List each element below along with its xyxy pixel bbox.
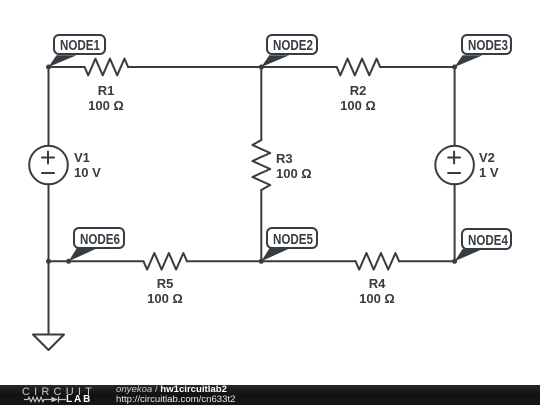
node flag pointer NODE5 (261, 249, 289, 262)
node flag pointer NODE4 (455, 249, 483, 261)
label V2 value (479, 150, 499, 181)
wire top segment R2 to NODE3 (380, 66, 454, 68)
wire right upper segment (454, 67, 456, 146)
wire bottom segment R5 to R4 (187, 260, 356, 262)
node flag pointer NODE2 (261, 55, 289, 67)
node NODE5 (266, 227, 318, 249)
junction dot node 3 (452, 65, 457, 70)
wire bottom segment NODE6 to R5 (49, 260, 144, 262)
resistor R4 (356, 253, 400, 270)
node NODE6 (73, 227, 125, 249)
junction dot node 6 (66, 259, 71, 264)
resistor R3 (252, 140, 270, 190)
wire top segment NODE1 to R1 (49, 66, 85, 68)
label V1 value (74, 150, 101, 181)
resistor R1 (85, 59, 129, 76)
logo schematic glyph (24, 395, 70, 405)
node NODE1 (53, 34, 106, 56)
label R3 value (276, 151, 312, 182)
logo LAB text (66, 395, 92, 405)
wire left upper segment (48, 67, 50, 146)
footer bar (0, 385, 540, 405)
label R5 value (125, 276, 205, 307)
label R2 value (318, 83, 398, 114)
footer credit line (116, 385, 235, 404)
wire top segment R1 to R2 (128, 66, 337, 68)
label R4 value (337, 276, 417, 307)
wire right lower segment (454, 184, 456, 261)
wire to ground (48, 261, 50, 334)
node NODE2 (266, 34, 318, 56)
wire left lower segment (48, 184, 50, 261)
node NODE3 (461, 34, 513, 56)
junction dot node 5 (259, 259, 264, 264)
junction dot node 2 (259, 65, 264, 70)
logo diode (51, 396, 58, 401)
junction dot node 4 (452, 259, 457, 264)
node NODE4 (461, 228, 513, 250)
logo diode bar and wire (58, 396, 66, 402)
wire bottom segment R4 to NODE4 (399, 260, 455, 262)
junction dot node 1 (46, 65, 51, 70)
logo wire with resistor zigzag (24, 397, 52, 401)
node flag pointer NODE6 (69, 249, 97, 262)
label R1 value (66, 83, 146, 114)
resistor R2 (337, 59, 381, 76)
wire middle lower segment (260, 190, 262, 261)
logo CIRCUIT text (22, 387, 96, 398)
voltage source V2 (435, 146, 474, 185)
resistor R5 (144, 253, 188, 270)
junction dot bottom-left corner (46, 259, 51, 264)
wire middle upper segment (260, 67, 262, 140)
node flag pointer NODE3 (455, 55, 483, 67)
node flag pointer NODE1 (49, 55, 77, 67)
voltage source V1 (29, 146, 68, 185)
ground (33, 335, 64, 351)
